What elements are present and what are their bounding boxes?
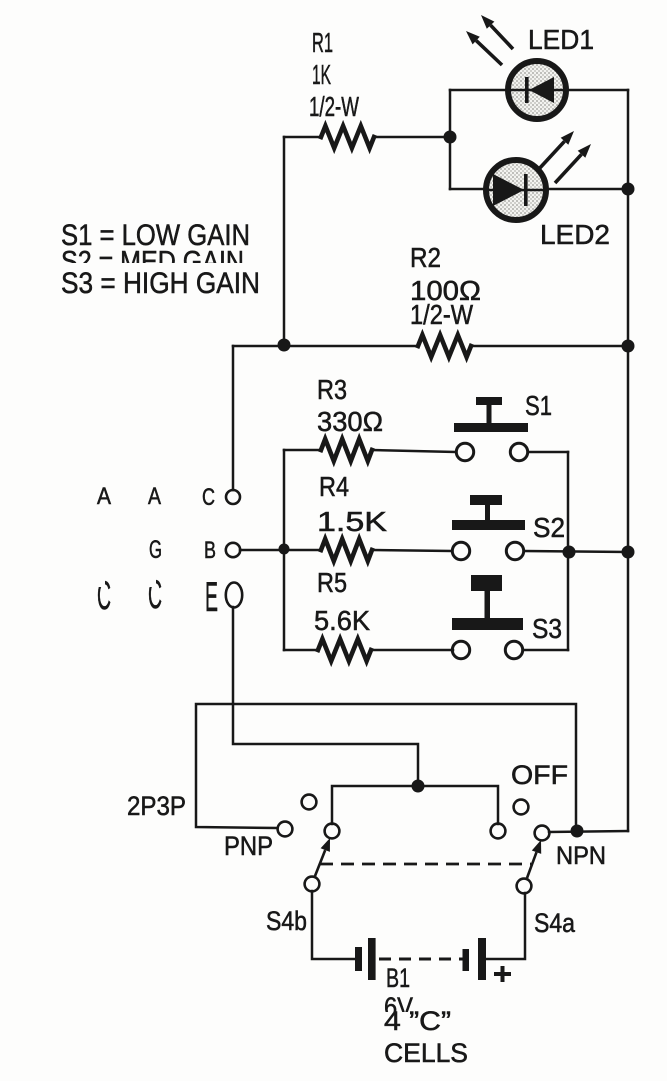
switch S3 contacts xyxy=(452,641,469,658)
rotary switch S4: unused contact left xyxy=(302,795,317,810)
wire: ladder left rail xyxy=(283,450,286,650)
wire: battery plus up to S4a pivot xyxy=(486,893,525,959)
svg-text:R3: R3 xyxy=(317,374,347,405)
battery B1 cell 1 short plate xyxy=(355,947,362,971)
wire: LED2 bottom branch xyxy=(450,188,628,191)
wire: NPN contact to right rail xyxy=(549,831,628,832)
resistor R1 xyxy=(321,126,374,148)
LED2 xyxy=(485,160,547,220)
S4a wiper arm with arrow xyxy=(527,852,537,878)
terminal B xyxy=(226,543,240,557)
wire: R1 row horizontal xyxy=(284,136,450,139)
wire: LED branch left vertical xyxy=(449,90,452,189)
svg-text:S3 = HIGH GAIN: S3 = HIGH GAIN xyxy=(61,267,260,300)
LED2 light arrows xyxy=(538,131,591,183)
switch S3 pushbutton xyxy=(452,575,523,630)
wire: R2 row horizontal xyxy=(233,345,628,348)
svg-text:NPN: NPN xyxy=(556,842,606,870)
rotary switch S4: PNP contact xyxy=(278,822,293,837)
switch S2 pushbutton xyxy=(452,495,525,530)
svg-text:R5: R5 xyxy=(317,567,347,598)
terminal C xyxy=(226,490,240,504)
node: junction dot B terminal / ladder rail xyxy=(279,544,290,555)
svg-text:A: A xyxy=(97,483,111,510)
svg-text:4 ”C”: 4 ”C” xyxy=(384,1006,451,1036)
node: junction dot LED2 / right rail xyxy=(622,183,635,196)
LED1 light arrows xyxy=(466,15,513,65)
rotary switch S4: OFF contact xyxy=(514,800,529,815)
switch S2 contacts xyxy=(452,542,469,559)
svg-text:LED1: LED1 xyxy=(528,24,594,55)
S4b wiper arm with arrow xyxy=(315,850,325,876)
wire: R3 row to S1 xyxy=(284,450,568,452)
svg-text:G: G xyxy=(149,536,162,564)
rotary switch S4b pivot xyxy=(305,877,320,892)
rotary switch S4: NPN contact xyxy=(535,826,550,841)
battery dashed link between cells xyxy=(379,958,463,961)
svg-text:1/2-W: 1/2-W xyxy=(410,299,473,330)
resistor R2 xyxy=(418,335,471,357)
node: junction dot R1/LED branch xyxy=(444,131,457,144)
resistor R4 xyxy=(321,539,372,561)
wire: right rail vertical xyxy=(627,90,630,831)
switch S1 pushbutton xyxy=(454,397,528,432)
svg-text:S4a: S4a xyxy=(534,908,576,938)
svg-text:CELLS: CELLS xyxy=(384,1038,468,1068)
svg-text:S4b: S4b xyxy=(266,906,307,936)
rotary switch S4: pole a contact xyxy=(491,824,506,839)
wire: vertical from R1 left end down to R2 row xyxy=(283,137,286,346)
resistor R5 xyxy=(318,639,371,661)
node: junction dot R2 / right rail xyxy=(622,340,635,353)
node: junction dot B row / right rail xyxy=(622,546,635,559)
wire: R5 row to S3 xyxy=(284,649,568,652)
rotary switch S4a pivot xyxy=(517,879,532,894)
battery B1 cell 2 long plate xyxy=(478,938,486,980)
svg-text:R4: R4 xyxy=(319,471,349,502)
svg-text:S1: S1 xyxy=(525,390,552,421)
battery plus sign xyxy=(494,966,511,982)
node: junction dot S4 common xyxy=(412,780,425,793)
wire: S4b pivot down to battery minus xyxy=(312,891,355,959)
wire: E terminal down, right, down to S4 common xyxy=(233,607,418,786)
LED1 xyxy=(507,61,567,119)
node: junction dot NPN xyxy=(571,825,584,838)
svg-text:330Ω: 330Ω xyxy=(317,406,383,437)
wire: LED1 top branch xyxy=(450,89,628,92)
svg-text:5.6K: 5.6K xyxy=(314,605,370,636)
svg-text:C: C xyxy=(202,484,215,511)
wire: switch right rail xyxy=(567,452,570,650)
battery B1 cell 2 short plate xyxy=(463,949,470,971)
wire: PNP contact up, across, down to NPN node xyxy=(196,704,576,831)
svg-text:OFF: OFF xyxy=(511,760,568,790)
switch S1 contacts xyxy=(456,443,473,460)
node: junction dot B row / switch rail xyxy=(563,546,576,559)
svg-text:E: E xyxy=(205,573,218,620)
svg-text:S3: S3 xyxy=(532,613,562,644)
svg-text:1.5K: 1.5K xyxy=(317,506,387,537)
svg-text:1/2-W: 1/2-W xyxy=(309,91,359,122)
svg-text:S2: S2 xyxy=(533,512,565,543)
resistor R3 xyxy=(321,439,372,461)
svg-text:A: A xyxy=(148,483,161,510)
svg-text:R2: R2 xyxy=(410,242,441,273)
terminal E xyxy=(226,583,242,608)
wire: S4 common V to pole contacts xyxy=(332,786,498,824)
svg-text:B1: B1 xyxy=(386,963,410,993)
svg-text:LED2: LED2 xyxy=(540,219,610,250)
rotary switch S4: pole b contact xyxy=(325,824,340,839)
svg-text:R1: R1 xyxy=(312,27,333,58)
svg-text:PNP: PNP xyxy=(224,831,273,861)
wire: B row through R4 and S2 xyxy=(240,550,628,552)
ganged switch dashed link xyxy=(320,863,531,866)
svg-text:B: B xyxy=(204,537,216,564)
node: junction dot left rail / R2 xyxy=(278,339,291,352)
svg-text:1K: 1K xyxy=(312,59,331,90)
battery B1 cell 1 long plate xyxy=(368,938,376,980)
wire: drop from R2 row to C terminal xyxy=(232,346,235,490)
svg-text:2P3P: 2P3P xyxy=(127,791,186,821)
